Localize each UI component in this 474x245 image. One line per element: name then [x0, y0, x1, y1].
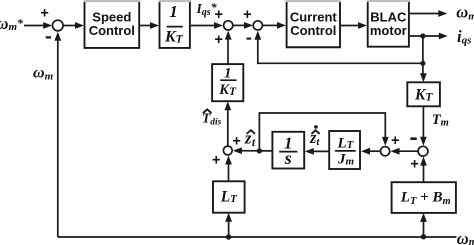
summing junction S2: [224, 21, 233, 30]
node minus sign below S3: [247, 38, 252, 40]
block LT/Jm gain: [329, 131, 360, 169]
wire current feedback to S3: [254, 31, 423, 64]
wire S6 up to 1/KT disturbance block: [224, 101, 231, 145]
wire zt-hat feedback loop to S4: [259, 113, 388, 151]
wire bottom line up to LT+Bm: [420, 213, 427, 237]
node junction dot on feedback tap: [420, 61, 425, 66]
wire 1/s to sum S6 zt-hat: [233, 147, 273, 154]
node minus sign at S5 top: [410, 137, 416, 140]
wire BLAC motor to iqs output: [410, 33, 448, 40]
summing junction S1: [53, 20, 64, 31]
svg-text:+: +: [212, 153, 220, 169]
wire LT+Bm block up to S5: [420, 157, 427, 183]
wire S2 to sum S3: [233, 22, 253, 29]
wire input arrow to sum S1: [24, 22, 52, 29]
svg-text:Control: Control: [89, 23, 135, 38]
svg-text:+: +: [243, 7, 251, 23]
block Speed Control: [84, 0, 141, 49]
node junction dot zt-hat: [257, 148, 262, 153]
wire left vertical feedback up to S1: [54, 32, 61, 237]
block 1/KT disturbance gain: [212, 64, 243, 101]
wire 1/KT to sum S2: [191, 22, 223, 29]
summing junction S3: [253, 21, 262, 30]
svg-text:+: +: [232, 134, 240, 150]
svg-text:+: +: [40, 5, 48, 21]
svg-text:+: +: [214, 32, 222, 48]
wire Speed Control to 1/KT: [140, 22, 159, 29]
svg-text:motor: motor: [370, 23, 407, 38]
block KT gain: [407, 82, 440, 106]
block 1/KT gain: [159, 0, 191, 49]
node zt-hat label: [244, 129, 256, 149]
block BLAC motor: [367, 0, 410, 48]
node junction dot below LT: [226, 234, 231, 239]
wire BLAC motor to omega_m output: [410, 10, 447, 17]
wire 1/KT up to S2: [225, 31, 232, 65]
wire KT to sum S5 torque Tm: [420, 106, 427, 146]
node Tdis-hat label: [202, 109, 222, 127]
wire LT block up to S6: [225, 156, 232, 182]
wire S1 to Speed Control: [63, 22, 84, 29]
svg-text:s: s: [284, 148, 292, 168]
wire junction down from iqs line: [422, 36, 424, 63]
node junction dot below LT+Bm: [421, 234, 426, 239]
svg-text:1: 1: [169, 2, 178, 21]
node minus sign at S1: [46, 36, 51, 38]
wire bottom line up to LT block: [225, 213, 232, 237]
wire S5 to sum S4: [391, 148, 418, 155]
wire LT/Jm to 1/s block: [305, 148, 329, 155]
block Current Control: [286, 0, 341, 48]
node zt-dot-hat label: [309, 125, 320, 148]
svg-text:+: +: [391, 133, 399, 149]
summing junction S5: [418, 146, 428, 156]
svg-text:Control: Control: [290, 23, 336, 38]
block LT gain: [213, 181, 245, 212]
wire bottom speed feedback line: [58, 236, 457, 238]
wire S3 to Current Control: [263, 22, 286, 29]
wire Current Control to BLAC motor: [341, 22, 367, 29]
block LT+Bm gain: [392, 182, 456, 213]
svg-text:+: +: [214, 7, 222, 23]
svg-text:+: +: [410, 156, 418, 172]
node junction dot on iqs line: [420, 33, 425, 38]
summing junction S6: [223, 146, 232, 155]
wire S4 to LT/Jm block: [361, 148, 380, 155]
summing junction S4: [381, 147, 390, 156]
wire junction down to KT block: [420, 63, 427, 82]
svg-text:1: 1: [224, 65, 231, 81]
block 1/s integrator: [272, 132, 304, 169]
